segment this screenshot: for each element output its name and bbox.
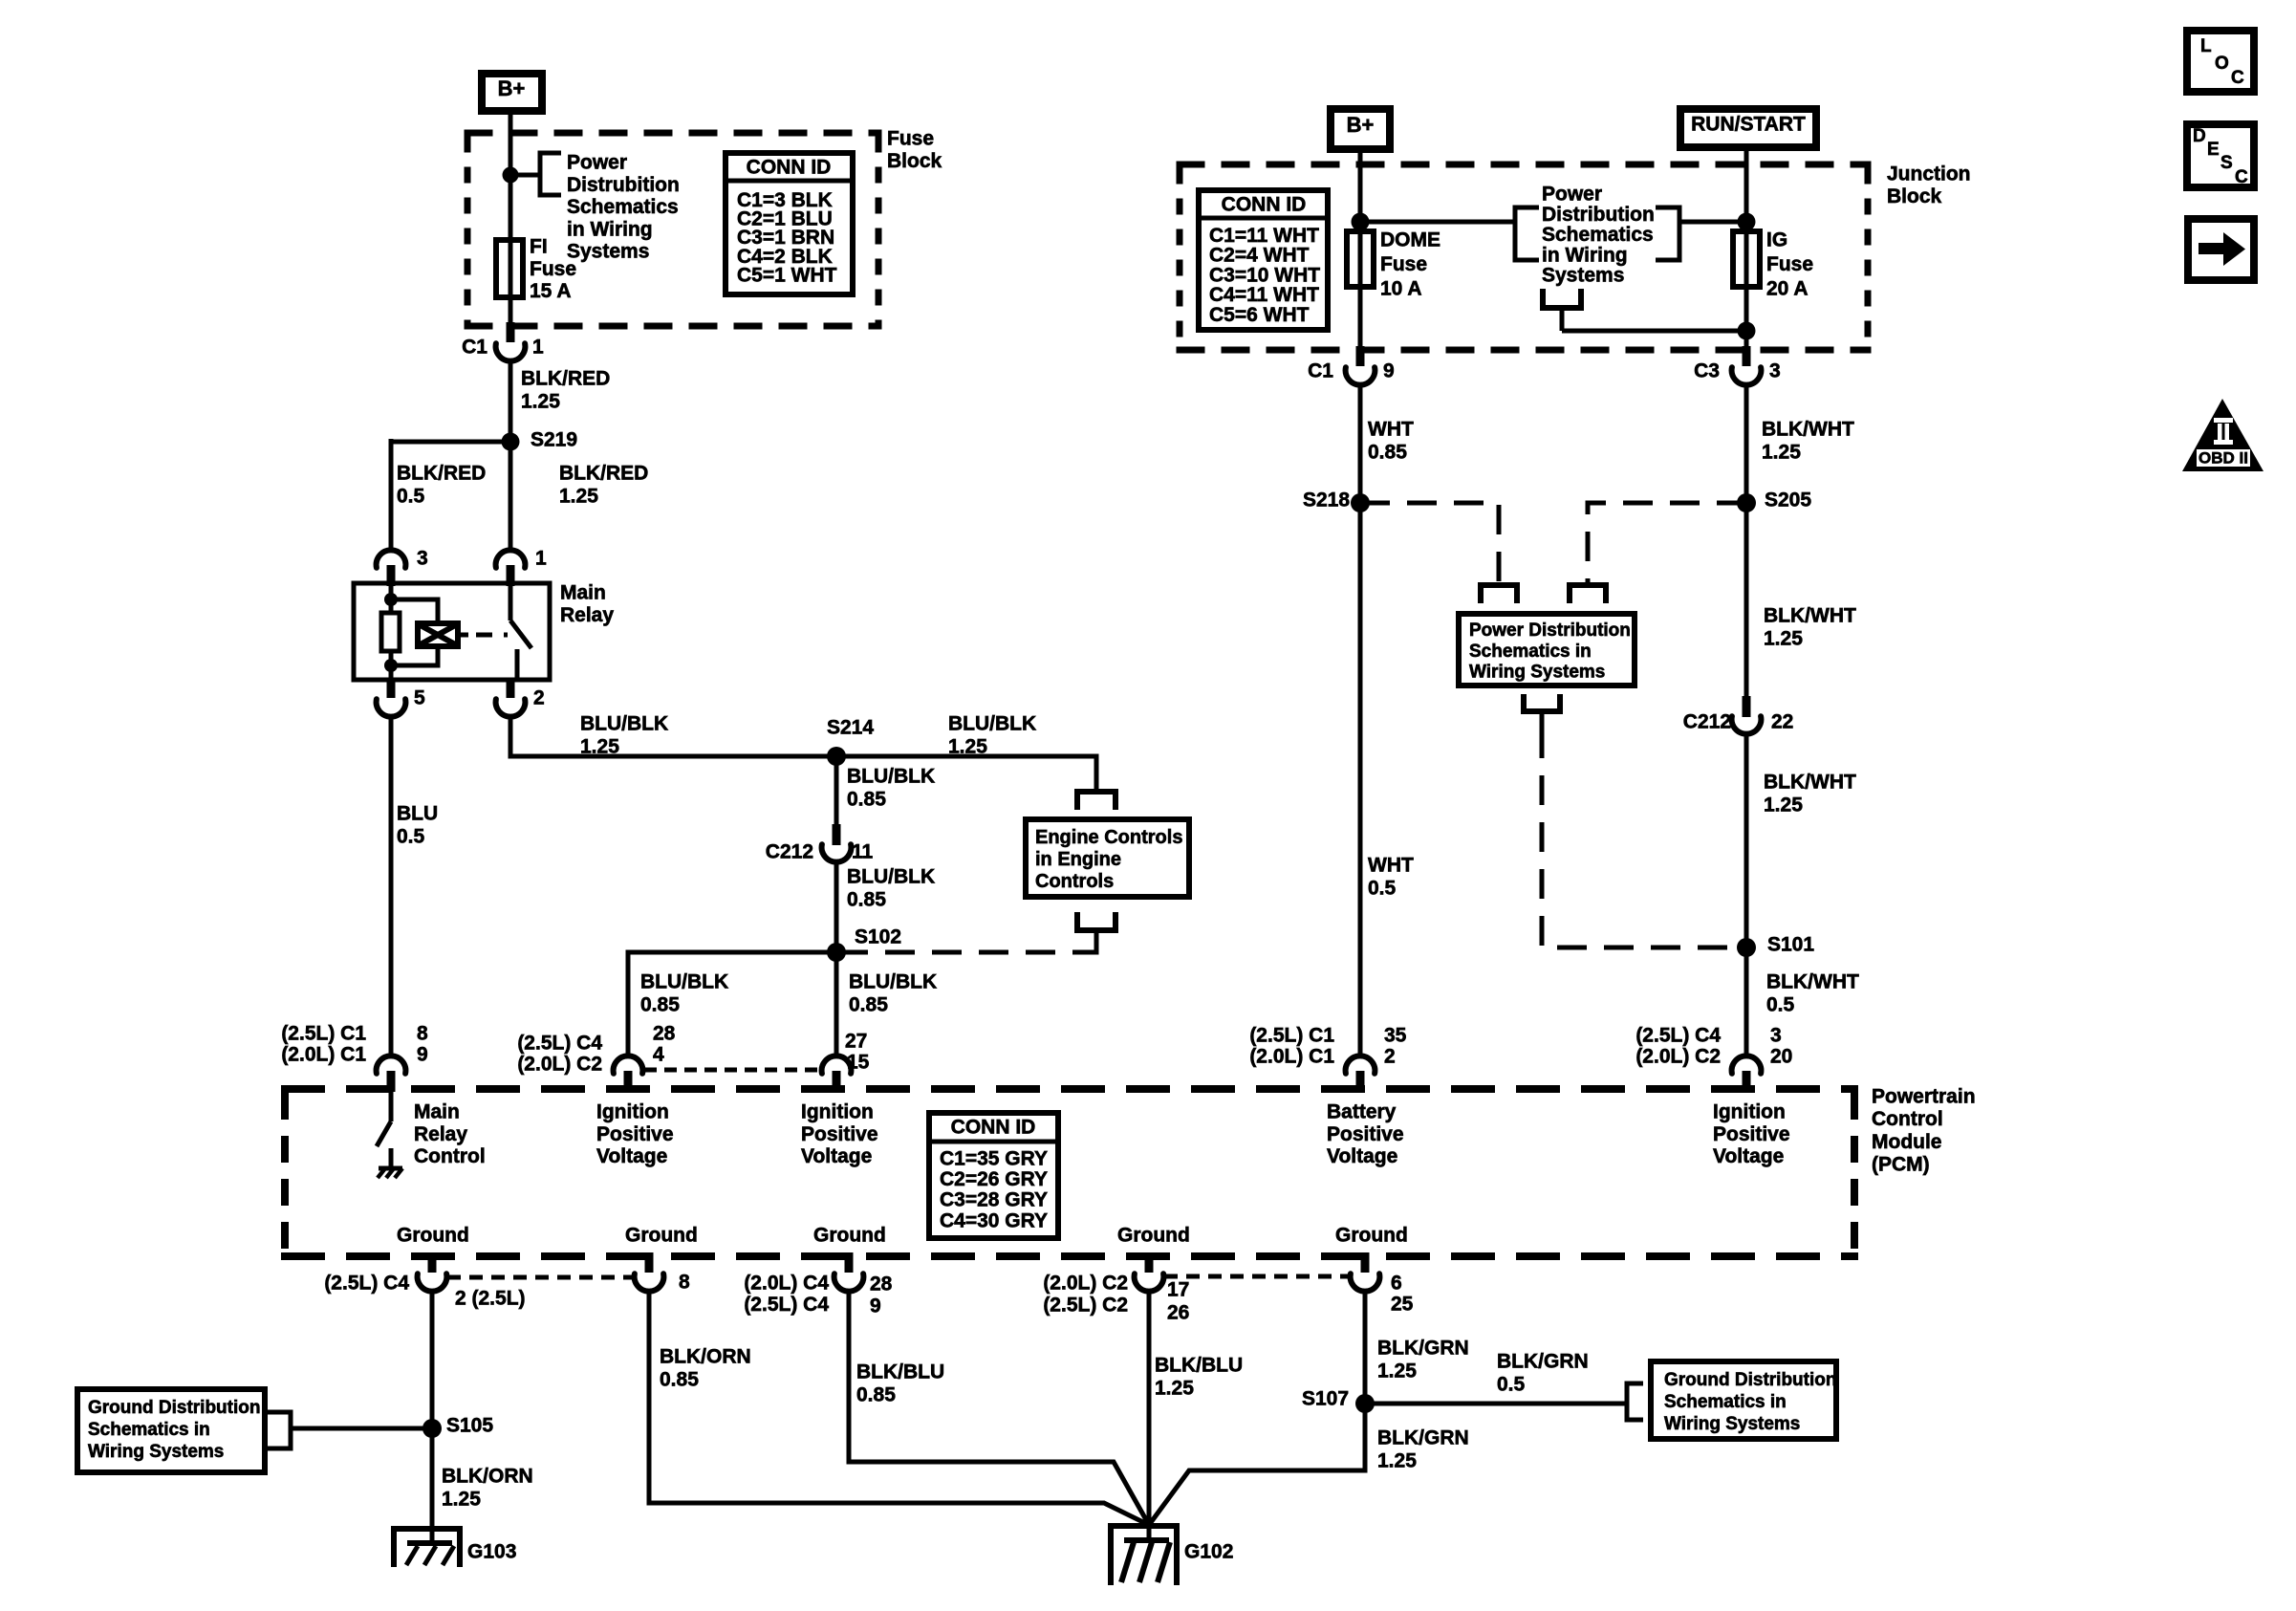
svg-text:BLK/GRN: BLK/GRN — [1377, 1338, 1469, 1360]
svg-text:0.5: 0.5 — [1368, 878, 1397, 900]
svg-text:Powertrain: Powertrain — [1872, 1086, 1976, 1108]
wire S214 down to C212-11 BLU/BLK 0.85 — [834, 756, 839, 825]
PCM internal switch to ground — [377, 1091, 402, 1178]
svg-text:DOME: DOME — [1380, 229, 1440, 251]
svg-text:Relay: Relay — [414, 1123, 467, 1145]
svg-text:(2.5L) C4: (2.5L) C4 — [517, 1033, 602, 1055]
wire C212-22 to S101 BLK/WHT 1.25 — [1744, 733, 1749, 947]
svg-text:25: 25 — [1391, 1294, 1414, 1316]
svg-text:BLK/WHT: BLK/WHT — [1766, 971, 1859, 993]
wire label BLK/ORN 0.85 — [660, 1346, 751, 1391]
svg-text:27: 27 — [845, 1031, 867, 1053]
connector C212 pin 11 labels — [766, 841, 874, 863]
wire S101 to PCM ignition positive BLK/WHT 0.5 — [1744, 947, 1749, 1056]
dashed wire Power Distribution box to S101 — [1542, 729, 1738, 947]
splice S218 — [1303, 490, 1370, 513]
svg-text:0.5: 0.5 — [1497, 1374, 1526, 1396]
svg-text:BLU/BLK: BLU/BLK — [640, 971, 728, 993]
svg-text:1.25: 1.25 — [1377, 1361, 1417, 1382]
svg-text:0.5: 0.5 — [397, 826, 425, 848]
svg-text:Junction: Junction — [1887, 163, 1971, 185]
connector ground pin (2) — [635, 1252, 664, 1292]
off-page bracket under Systems note — [1543, 289, 1581, 331]
connector C1 pin 1 labels — [462, 337, 544, 359]
splice S205 — [1737, 490, 1811, 513]
wire S218 to PCM battery positive WHT 0.5 — [1358, 503, 1363, 1056]
svg-text:(2.0L) C4: (2.0L) C4 — [744, 1273, 829, 1295]
wire S107 to right ground note BLK/GRN 0.5 — [1365, 1402, 1625, 1406]
svg-text:Systems: Systems — [567, 241, 649, 263]
svg-text:9: 9 — [417, 1044, 428, 1066]
svg-text:(2.5L) C4: (2.5L) C4 — [324, 1273, 409, 1295]
svg-text:BLK/BLU: BLK/BLU — [1155, 1355, 1243, 1377]
splice S105 — [422, 1415, 493, 1439]
connector table CONN ID (PCM) — [929, 1113, 1058, 1238]
svg-text:S101: S101 — [1767, 934, 1814, 956]
svg-text:2 (2.5L): 2 (2.5L) — [455, 1288, 526, 1310]
svg-text:C5=1 WHT: C5=1 WHT — [737, 264, 837, 286]
connector pin 8/9 (PCM main relay control) — [377, 1056, 406, 1092]
svg-text:Module: Module — [1872, 1131, 1942, 1153]
svg-text:Ground Distribution: Ground Distribution — [88, 1398, 260, 1418]
node / tap on IG wire (return) — [1738, 322, 1756, 340]
svg-text:C1: C1 — [1308, 360, 1333, 382]
svg-text:BLK/RED: BLK/RED — [521, 368, 610, 390]
svg-text:5: 5 — [414, 687, 425, 709]
svg-text:Ground Distribution: Ground Distribution — [1664, 1370, 1836, 1390]
wire S214 to Engine Controls BLU/BLK 1.25 — [836, 756, 1096, 792]
wire B+ to fuse block / FI fuse — [509, 111, 513, 242]
svg-text:S218: S218 — [1303, 490, 1350, 512]
svg-text:(2.5L) C2: (2.5L) C2 — [1043, 1295, 1128, 1317]
svg-text:S205: S205 — [1765, 490, 1811, 512]
wire label WHT 0.5 — [1368, 855, 1414, 900]
svg-text:C212: C212 — [766, 841, 813, 863]
svg-text:0.5: 0.5 — [1766, 994, 1795, 1016]
svg-text:Ignition: Ignition — [1713, 1101, 1786, 1123]
svg-text:Voltage: Voltage — [1713, 1145, 1784, 1167]
svg-text:1.25: 1.25 — [1764, 628, 1803, 650]
wire left branch down to relay pin 3 BLK/RED 0.5 — [389, 439, 394, 552]
svg-text:Schematics in: Schematics in — [1664, 1392, 1787, 1412]
connector C3 pin 3 labels — [1694, 360, 1781, 382]
off-page bracket to Power Distrubition note — [540, 153, 561, 195]
svg-text:0.85: 0.85 — [640, 994, 680, 1016]
wire label BLK/WHT 1.25 (middle) — [1764, 605, 1856, 650]
relay K Main Relay (box) — [354, 583, 550, 680]
relay coil node upper — [384, 593, 398, 606]
pin labels (2.0L) C4 / (2.5L) C4 (ground 3) — [744, 1273, 829, 1317]
svg-text:1.25: 1.25 — [580, 736, 619, 758]
fuse IG 20 A label — [1766, 229, 1813, 300]
svg-text:1.25: 1.25 — [1155, 1378, 1194, 1400]
svg-text:G103: G103 — [467, 1541, 516, 1563]
wire label BLK/RED 1.25 (upper) — [521, 368, 610, 413]
connector pin 28/4 (PCM ignition positive) — [614, 1056, 643, 1092]
svg-text:3: 3 — [1769, 360, 1781, 382]
wire ground pin 5 to S107 BLK/GRN 1.25 — [1363, 1291, 1368, 1404]
svg-text:BLK/WHT: BLK/WHT — [1764, 605, 1856, 627]
wire ground pin 2 to G102 BLK/ORN 0.85 — [649, 1291, 1149, 1525]
svg-text:BLK/GRN: BLK/GRN — [1497, 1351, 1589, 1373]
svg-text:Fuse: Fuse — [1380, 253, 1427, 275]
svg-text:CONN ID: CONN ID — [951, 1117, 1036, 1139]
icon LOC — [2187, 31, 2254, 92]
splice S102 — [827, 926, 901, 963]
connector pin 5 (Main Relay) — [377, 678, 425, 717]
svg-text:RUN/START: RUN/START — [1691, 114, 1806, 136]
svg-text:Ground: Ground — [813, 1225, 886, 1247]
svg-text:3: 3 — [1770, 1025, 1782, 1047]
svg-text:Schematics: Schematics — [567, 196, 679, 218]
wire FI fuse to connector C1-1 — [509, 297, 513, 326]
svg-text:C1: C1 — [462, 337, 487, 359]
relay coil (solenoid X-box) — [391, 599, 458, 665]
wire S205 to C212-22 BLK/WHT 1.25 — [1744, 503, 1749, 697]
wire IG fuse to connector C3-3 — [1744, 287, 1749, 350]
pin labels 27 / 15 — [845, 1031, 870, 1074]
svg-text:E: E — [2207, 140, 2220, 160]
svg-text:1.25: 1.25 — [1764, 795, 1803, 816]
pin labels 17 / 26 (ground 4) — [1167, 1279, 1189, 1324]
svg-text:Relay: Relay — [560, 604, 614, 626]
wire ground pin 3 to G102 BLK/BLU 0.85 — [849, 1291, 1149, 1525]
wire bracket to IG feed tap — [1679, 220, 1746, 225]
svg-text:Fuse: Fuse — [1766, 253, 1813, 275]
svg-text:WHT: WHT — [1368, 855, 1414, 877]
PCM input name: Ignition Positive Voltage (1) — [596, 1101, 674, 1168]
svg-text:20 A: 20 A — [1766, 278, 1809, 300]
svg-text:OBD II: OBD II — [2199, 449, 2248, 468]
connector pin 35/2 (PCM battery positive) — [1346, 1056, 1375, 1092]
wire C1-1 to S219 BLK/RED 1.25 — [509, 359, 513, 442]
connector ground pin (4) — [1135, 1252, 1164, 1292]
svg-text:2: 2 — [533, 687, 545, 709]
connector pin 2 (Main Relay) — [496, 678, 545, 717]
relay switch contact — [510, 585, 531, 679]
fuse block dashed box — [465, 133, 882, 326]
svg-text:BLK/ORN: BLK/ORN — [660, 1346, 751, 1368]
svg-text:1.25: 1.25 — [1762, 442, 1801, 464]
wire label BLU/BLK 0.85 (below C212-11) — [847, 866, 935, 911]
off-page bracket (right) over Power Distribution box — [1570, 585, 1606, 603]
svg-text:C3: C3 — [1694, 360, 1720, 382]
node / tap on IG feed — [1738, 213, 1756, 231]
connector table CONN ID (junction block) — [1199, 190, 1328, 330]
svg-text:(2.0L) C2: (2.0L) C2 — [517, 1054, 602, 1076]
fuse FI 15 A label — [530, 236, 576, 303]
svg-text:35: 35 — [1384, 1025, 1407, 1047]
svg-text:4: 4 — [653, 1044, 664, 1066]
svg-text:Block: Block — [1887, 185, 1942, 207]
connector pin 1 (Main Relay) — [496, 548, 547, 587]
wire label BLU/BLK 0.85 (left branch) — [640, 971, 728, 1016]
connector pin 3 (Main Relay) — [377, 548, 428, 587]
relay coil node lower — [384, 659, 398, 672]
svg-text:Voltage: Voltage — [1327, 1145, 1397, 1167]
svg-text:Schematics: Schematics — [1542, 224, 1654, 246]
wire B+ to DOME fuse (junction block) — [1358, 149, 1363, 231]
pin labels (2.5L) C4 / (2.0L) C2 — [517, 1023, 675, 1076]
dashed jumper ground pin 1 to pin 2 — [447, 1275, 633, 1280]
svg-text:17: 17 — [1167, 1279, 1189, 1301]
svg-text:C4=11 WHT: C4=11 WHT — [1209, 284, 1319, 306]
svg-text:Engine Controls: Engine Controls — [1035, 827, 1182, 848]
svg-text:0.85: 0.85 — [847, 889, 886, 911]
wire S102 down to PCM pin 27/15 — [834, 952, 839, 1056]
svg-text:28: 28 — [653, 1023, 676, 1045]
pin label (2.5L) C4 (ground 1) — [324, 1273, 409, 1295]
PCM output name: Ground (5) — [1335, 1225, 1408, 1247]
svg-text:CONN ID: CONN ID — [747, 157, 832, 179]
icon DESC — [2187, 124, 2254, 187]
wire C1-9 to S218 WHT 0.85 — [1358, 382, 1363, 503]
svg-text:O: O — [2215, 54, 2229, 74]
svg-text:C5=6 WHT: C5=6 WHT — [1209, 304, 1310, 326]
svg-text:WHT: WHT — [1368, 419, 1414, 441]
off-page bracket under Power Distribution box — [1524, 694, 1560, 729]
svg-text:Distrubition: Distrubition — [567, 174, 680, 196]
node / tap on B+ feed — [503, 167, 539, 184]
wire ground pin 4 to G102 BLK/BLU 1.25 — [1147, 1291, 1152, 1526]
pin label 2 (2.5L) (ground 1) — [455, 1288, 526, 1310]
wire label BLK/WHT 1.25 (lower) — [1764, 772, 1856, 816]
svg-text:0.85: 0.85 — [856, 1384, 896, 1406]
wire label BLK/GRN 1.25 (above S107) — [1377, 1338, 1469, 1382]
wire relay pin 2 to S214 BLU/BLK 1.25 — [510, 714, 836, 756]
svg-text:Schematics in: Schematics in — [88, 1420, 210, 1440]
PCM output name: Ground (4) — [1117, 1225, 1190, 1247]
svg-text:Voltage: Voltage — [596, 1145, 667, 1167]
wire label BLU 0.5 — [397, 803, 438, 848]
wire label BLK/ORN 1.25 — [442, 1466, 533, 1511]
connector table CONN ID (fuse block) — [726, 153, 853, 294]
wire S102 left branch to PCM pin 28/4 — [628, 952, 836, 1056]
PCM input name: Main Relay Control — [414, 1101, 486, 1168]
dashed jumper pin 4 to pin 15 — [644, 1068, 820, 1073]
wire note return to IG wire — [1562, 329, 1746, 334]
wire tap to power distribution bracket (left) — [1360, 220, 1513, 225]
svg-text:Fuse: Fuse — [530, 258, 576, 280]
svg-text:1.25: 1.25 — [442, 1489, 481, 1511]
wire label BLK/BLU 1.25 — [1155, 1355, 1243, 1400]
svg-text:BLK/GRN: BLK/GRN — [1377, 1427, 1469, 1449]
svg-text:BLU: BLU — [397, 803, 438, 825]
svg-text:C1=11 WHT: C1=11 WHT — [1209, 225, 1319, 247]
svg-text:Positive: Positive — [1327, 1123, 1404, 1145]
svg-text:C1=35 GRY: C1=35 GRY — [940, 1148, 1048, 1170]
svg-text:FI: FI — [530, 236, 548, 258]
svg-text:C2=26 GRY: C2=26 GRY — [940, 1168, 1048, 1190]
svg-text:Main: Main — [414, 1101, 460, 1123]
svg-text:IG: IG — [1766, 229, 1787, 251]
svg-text:9: 9 — [870, 1295, 881, 1317]
connector C212 pin 11 — [822, 824, 852, 862]
svg-text:Power: Power — [1542, 184, 1602, 206]
wire label BLK/BLU 0.85 — [856, 1361, 944, 1406]
svg-text:Wiring Systems: Wiring Systems — [1664, 1414, 1800, 1434]
svg-text:Distribution: Distribution — [1542, 204, 1655, 226]
PCM output name: Ground (2) — [625, 1225, 698, 1247]
svg-text:1: 1 — [532, 337, 544, 359]
svg-text:0.5: 0.5 — [397, 486, 425, 508]
svg-text:1: 1 — [535, 548, 547, 570]
svg-text:Schematics in: Schematics in — [1469, 642, 1592, 662]
splice S219 — [502, 429, 578, 451]
dashed wire S218 to power distribution bracket — [1360, 503, 1499, 583]
ground distribution reference box (right) — [1651, 1361, 1836, 1439]
svg-text:1.25: 1.25 — [559, 486, 598, 508]
pin labels (2.5L) C1 / (2.0L) C1 (main relay control) — [281, 1023, 428, 1066]
svg-text:Positive: Positive — [801, 1123, 878, 1145]
splice S107 — [1302, 1388, 1375, 1414]
node / tap on DOME feed — [1352, 213, 1370, 231]
svg-text:20: 20 — [1770, 1046, 1792, 1068]
svg-text:D: D — [2193, 126, 2206, 146]
svg-text:(2.5L) C4: (2.5L) C4 — [1635, 1025, 1721, 1047]
powertrain control module dashed box — [281, 1089, 1858, 1256]
svg-text:Ground: Ground — [625, 1225, 698, 1247]
pin labels (2.0L) C2 / (2.5L) C2 (ground 4) — [1043, 1273, 1128, 1317]
svg-text:BLK/WHT: BLK/WHT — [1764, 772, 1856, 794]
wire label BLK/WHT 1.25 (top) — [1762, 419, 1854, 464]
wire C3-3 to S205 BLK/WHT 1.25 — [1744, 382, 1749, 503]
off-page bracket to Engine Controls (top) — [1077, 792, 1116, 810]
wire label BLK/WHT 0.5 — [1766, 971, 1859, 1016]
svg-text:(2.5L) C1: (2.5L) C1 — [1249, 1025, 1334, 1047]
dashed wire S205 to power distribution bracket — [1588, 503, 1746, 583]
pin labels (2.5L) C1 / (2.0L) C1 (battery positive) — [1249, 1025, 1406, 1068]
svg-text:BLU/BLK: BLU/BLK — [847, 866, 935, 888]
svg-text:0.85: 0.85 — [849, 994, 888, 1016]
svg-text:Ground: Ground — [1335, 1225, 1408, 1247]
svg-text:S219: S219 — [531, 429, 577, 451]
connector C1 pin 9 (junction block) — [1346, 346, 1375, 385]
ground G102 — [1111, 1526, 1233, 1585]
svg-text:Ground: Ground — [1117, 1225, 1190, 1247]
svg-text:C3=10 WHT: C3=10 WHT — [1209, 264, 1320, 286]
svg-text:Fuse: Fuse — [887, 128, 934, 150]
pin labels 6 / 25 (ground 5) — [1391, 1273, 1414, 1316]
svg-text:BLK/ORN: BLK/ORN — [442, 1466, 533, 1488]
connector C3 pin 3 (junction block) — [1732, 346, 1762, 385]
svg-text:Control: Control — [1872, 1108, 1943, 1130]
svg-text:S102: S102 — [855, 926, 901, 948]
wire S219 to left branch — [391, 440, 510, 445]
wire bracket to S105 — [291, 1426, 424, 1431]
wire S107 to G102 BLK/GRN 1.25 — [1149, 1404, 1365, 1525]
svg-text:11: 11 — [852, 841, 874, 863]
svg-text:S214: S214 — [827, 717, 874, 739]
wire S219 down to relay pin 1 — [509, 442, 513, 552]
off-page bracket (left) over Power Distribution box — [1481, 585, 1517, 603]
ground G103 — [394, 1529, 516, 1567]
connector C212 pin 22 labels — [1683, 711, 1794, 733]
off-page bracket ] Power Distribution (junction block) — [1656, 207, 1679, 260]
splice S101 — [1737, 934, 1814, 958]
svg-text:BLK/RED: BLK/RED — [397, 463, 486, 485]
wire ground pin 1 to S105 — [430, 1291, 435, 1428]
svg-text:Positive: Positive — [596, 1123, 674, 1145]
svg-text:0.85: 0.85 — [660, 1369, 699, 1391]
PCM input name: Ignition Positive Voltage (2) — [801, 1101, 878, 1168]
svg-text:9: 9 — [1383, 360, 1395, 382]
wire label BLK/RED 0.5 — [397, 463, 486, 508]
dashed wire Engine Controls to S102 — [845, 947, 1096, 952]
svg-text:26: 26 — [1167, 1302, 1189, 1324]
wire DOME fuse to connector C1-9 — [1358, 287, 1363, 350]
PCM input name: Ignition Positive Voltage (3) — [1713, 1101, 1790, 1168]
svg-text:(2.5L) C4: (2.5L) C4 — [744, 1294, 829, 1316]
pin labels (2.5L) C4 / (2.0L) C2 (ignition positive) — [1635, 1025, 1792, 1068]
off-page bracket [ right ground note — [1627, 1383, 1643, 1420]
svg-text:BLU/BLK: BLU/BLK — [849, 971, 937, 993]
svg-text:(2.5L) C1: (2.5L) C1 — [281, 1023, 366, 1045]
engine controls reference box — [1026, 819, 1189, 897]
svg-text:3: 3 — [417, 548, 428, 570]
relay name label — [560, 582, 614, 626]
svg-text:Control: Control — [414, 1145, 486, 1167]
svg-text:C2=4 WHT: C2=4 WHT — [1209, 245, 1310, 267]
svg-text:C: C — [2231, 68, 2244, 88]
svg-text:22: 22 — [1771, 711, 1793, 733]
fuse block name label — [887, 128, 942, 172]
svg-text:Wiring Systems: Wiring Systems — [1469, 663, 1605, 683]
svg-text:S: S — [2220, 153, 2233, 173]
svg-text:C212: C212 — [1683, 711, 1731, 733]
wire RUN/START to IG fuse — [1744, 147, 1749, 231]
icon OBD II warning triangle — [2182, 399, 2264, 471]
svg-text:(2.0L) C2: (2.0L) C2 — [1635, 1046, 1721, 1068]
svg-text:L: L — [2200, 36, 2212, 56]
wire label BLU/BLK 0.85 (above C212-11) — [847, 766, 935, 811]
svg-text:B+: B+ — [1347, 113, 1375, 137]
connector C1 pin 9 labels — [1308, 360, 1395, 382]
fuse IG 20 A (element) — [1733, 231, 1760, 287]
svg-text:15 A: 15 A — [530, 280, 572, 302]
wire label BLU/BLK 1.25 (left of S214) — [580, 713, 668, 758]
svg-text:S107: S107 — [1302, 1388, 1349, 1410]
svg-text:1.25: 1.25 — [1377, 1450, 1417, 1472]
svg-text:(2.0L) C1: (2.0L) C1 — [1249, 1046, 1334, 1068]
svg-text:8: 8 — [679, 1272, 690, 1294]
svg-text:S105: S105 — [446, 1415, 493, 1437]
PCM input name: Battery Positive Voltage — [1327, 1101, 1404, 1168]
svg-text:Ignition: Ignition — [596, 1101, 669, 1123]
svg-text:28: 28 — [870, 1274, 893, 1295]
svg-text:Wiring Systems: Wiring Systems — [88, 1442, 224, 1462]
fuse DOME 10 A (element) — [1347, 231, 1374, 287]
svg-text:2: 2 — [1384, 1046, 1396, 1068]
pin labels 28 / 9 (ground 3) — [870, 1274, 893, 1317]
svg-text:0.85: 0.85 — [1368, 442, 1407, 464]
wire relay pin 5 to PCM main relay control BLU 0.5 — [389, 714, 394, 1056]
junction block name label — [1887, 163, 1971, 207]
svg-text:1.25: 1.25 — [521, 391, 560, 413]
svg-text:Systems: Systems — [1542, 265, 1624, 287]
wire C212-11 to S102 BLU/BLK 0.85 — [834, 861, 839, 952]
svg-text:in Wiring: in Wiring — [567, 218, 653, 240]
svg-text:Battery: Battery — [1327, 1101, 1397, 1123]
relay actuation dashed link — [458, 633, 508, 638]
wire S105 to G103 BLK/ORN 1.25 — [430, 1428, 435, 1531]
wire label BLK/GRN 0.5 — [1497, 1351, 1589, 1396]
off-page bracket [ Power Distribution (junction block) — [1515, 207, 1539, 260]
svg-text:B+: B+ — [498, 76, 526, 100]
svg-text:0.85: 0.85 — [847, 789, 886, 811]
PCM output name: Ground (1) — [397, 1225, 469, 1247]
pin label 8 (ground 2) — [679, 1272, 690, 1294]
